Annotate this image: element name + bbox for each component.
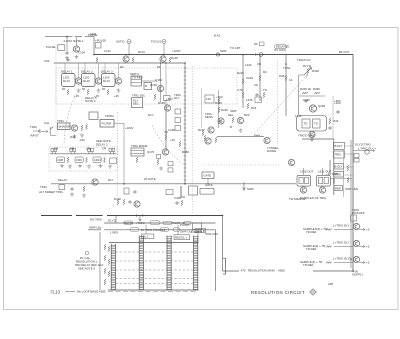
svg-text:DLAY: DLAY (103, 79, 110, 83)
svg-text:SWP: SWP (220, 49, 227, 53)
svg-text:SWP: SWP (230, 109, 237, 113)
ladder column 1 (111, 244, 115, 290)
wire stub box2 up (322, 168, 324, 175)
ground c101 (65, 56, 69, 60)
wire vertical x286 (285, 55, 287, 117)
wire dly trig out (354, 150, 373, 152)
resistor R160 (154, 94, 156, 100)
resistor R206 (215, 137, 217, 143)
ground q237 (239, 129, 243, 133)
resistor under q175 (157, 159, 159, 165)
resistor right of box (329, 118, 331, 124)
box small x124 (124, 188, 129, 194)
box trig shaper (58, 123, 71, 130)
ladder column 2 (139, 236, 143, 291)
box small x192 (193, 223, 202, 230)
svg-text:R180: R180 (182, 150, 189, 154)
adjust FOCUS circle (162, 40, 166, 44)
wire y96 (299, 95, 325, 97)
ground row 1 (60, 164, 64, 168)
svg-text:+50V: +50V (166, 97, 173, 101)
label delayed on line (124, 221, 133, 224)
wire right bus corner vertical x353 (352, 55, 354, 272)
svg-text:DLY'D: DLY'D (303, 64, 311, 68)
wire second bus y63 (54, 62, 185, 64)
row1 terminal (359, 228, 365, 231)
transistor Q253 (115, 78, 121, 84)
value box V2 (175, 118, 181, 123)
svg-text:DL 1: DL 1 (143, 235, 149, 239)
connector trig input (33, 130, 40, 133)
selector stack A (131, 76, 142, 86)
left resistors group1 (104, 244, 106, 250)
junction circle on bus (259, 53, 263, 57)
ground row 2 (68, 165, 72, 169)
cluster 2 top (70, 148, 76, 154)
svg-text:NO TRIG: NO TRIG (90, 218, 103, 222)
resistor diode row a (67, 157, 69, 163)
resistor R205 (204, 135, 206, 141)
transistor Q205 (208, 127, 214, 133)
svg-text:L+TRIG DLY: L+TRIG DLY (333, 224, 349, 228)
svg-text:CAL: CAL (44, 121, 50, 125)
wire long horizontal y183.8 (51, 183, 296, 185)
wire input to switch (41, 130, 48, 132)
transistor Q160 (157, 85, 163, 91)
wire stem x67 (66, 37, 68, 51)
left resistors group5 (104, 268, 106, 274)
svg-text:DELAY 2: DELAY 2 (96, 142, 108, 146)
svg-text:DELAY: DELAY (58, 178, 67, 182)
transistor Q220 (218, 118, 224, 124)
wire stubs boxes to bus (345, 146, 354, 175)
node busC x160 (160, 62, 161, 63)
svg-text:+TRIG: +TRIG (136, 221, 145, 225)
label row mid boxes a (160, 228, 169, 231)
svg-text:TD: TD (263, 88, 267, 92)
vertical x333 upper (332, 96, 334, 139)
transistor Q237 (237, 117, 243, 123)
switch cal-norm (50, 127, 56, 136)
inner cell 1a (299, 177, 303, 183)
node busC x185 (184, 62, 186, 64)
resistor R180 (179, 141, 181, 147)
svg-text:TR REF: TR REF (303, 263, 314, 267)
wire box2 to bus (330, 178, 352, 180)
svg-text:C408: C408 (174, 196, 181, 200)
cluster x260 low (263, 92, 265, 98)
resistor chain right b (347, 177, 349, 183)
svg-text:+5: +5 (366, 245, 370, 249)
svg-text:SWP: SWP (247, 187, 254, 191)
row3 resistor (326, 262, 332, 264)
svg-text:R28: R28 (279, 74, 285, 78)
small boxes on bus below (354, 154, 359, 158)
svg-text:B A2: B A2 (214, 34, 220, 38)
resistor R243b (247, 103, 249, 109)
svg-text:R220: R220 (221, 108, 228, 112)
capacitor C63 on bus2 (66, 58, 69, 62)
left resistors group6 (108, 271, 110, 277)
box alt sweep (59, 185, 65, 190)
adjust ASTIG circle (127, 40, 131, 44)
svg-text:TD REG: TD REG (132, 76, 144, 80)
svg-text:CR10: CR10 (94, 158, 102, 162)
svg-text:SWP LEN: SWP LEN (345, 187, 358, 191)
capacitor C345 (304, 99, 307, 103)
dashed row 2 (115, 260, 193, 262)
node y184 x208 (207, 183, 208, 184)
ground trig (80, 134, 84, 138)
dashed row 5 (115, 283, 193, 285)
row1 wire (334, 229, 353, 231)
svg-text:DLY: DLY (108, 178, 113, 182)
svg-text:C60: C60 (44, 59, 50, 63)
wire stub box1 up (303, 168, 305, 175)
svg-text:ALT SWEEP TRIG: ALT SWEEP TRIG (39, 190, 64, 194)
terminal tick (372, 149, 375, 152)
svg-text:L235: L235 (246, 98, 253, 102)
resistor R131 (169, 57, 171, 63)
wire stubs bus to boxes (65, 63, 119, 78)
label row y223 box c (163, 221, 172, 224)
svg-text:C166: C166 (168, 128, 175, 132)
stacked box r4 (334, 172, 344, 178)
label box row 2 (75, 157, 83, 163)
circle symbol (85, 251, 89, 255)
svg-text:+15: +15 (114, 94, 119, 98)
svg-text:R160: R160 (150, 83, 157, 87)
selector box DLY SEL (132, 98, 143, 108)
dly trig out transistor (365, 150, 369, 154)
wire mid horizontal y136.3 (217, 135, 264, 137)
node y184 x124 (123, 183, 125, 185)
svg-text:PULSE: PULSE (46, 45, 56, 49)
transistor Q45 (71, 125, 77, 131)
bracket x181 (181, 186, 185, 197)
ground below box (310, 138, 314, 142)
arrow connector down (243, 182, 246, 190)
label box dl1 (141, 234, 154, 238)
dashed diagonal arrow (257, 74, 308, 131)
svg-text:SEL: SEL (133, 102, 139, 106)
svg-text:1 RES: 1 RES (110, 231, 118, 235)
arrow into bus (349, 257, 352, 260)
box small x166 (166, 190, 173, 195)
block left vertical (99, 232, 101, 290)
svg-text:DELAY 2: DELAY 2 (81, 70, 93, 74)
resistor chain x219 b (218, 107, 220, 113)
svg-text:GEN: GEN (90, 32, 96, 36)
small box B SWP (144, 83, 152, 90)
resistor R286 (285, 75, 287, 81)
label box row3 a (130, 228, 139, 231)
svg-text:DLAY: DLAY (63, 79, 70, 83)
block bottom edge (108, 289, 199, 291)
node line x67 (66, 36, 68, 38)
junction circle x218 bus (216, 53, 219, 56)
svg-text:C234: C234 (246, 76, 253, 80)
resistor chain x219 (218, 98, 220, 104)
svg-text:7L13: 7L13 (50, 290, 61, 295)
ground row 6 (108, 165, 112, 169)
wire vertical x201.5 (201, 88, 203, 128)
svg-text:SEE NOTE 4: SEE NOTE 4 (78, 267, 95, 271)
resistor R403 (123, 199, 125, 205)
svg-text:SENS: SENS (205, 115, 213, 119)
svg-text:4.7K: 4.7K (237, 88, 243, 92)
svg-text:50: 50 (62, 87, 66, 91)
dashed row 3 (115, 269, 193, 271)
svg-text:EF: EF (120, 65, 124, 69)
capacitor C166 (164, 130, 167, 134)
wire vertical x243 (242, 55, 244, 109)
label box row 1 (57, 157, 65, 163)
svg-text:R216: R216 (215, 101, 222, 105)
label row y223 box d (184, 221, 191, 224)
capacitor C101 (65, 51, 68, 55)
box delay filter (100, 120, 114, 128)
capacitor C260 (255, 93, 258, 97)
node x286 top (285, 63, 287, 65)
dashed row 4 (115, 277, 193, 279)
wire stub x166 top (165, 63, 167, 96)
capacitor right of box (328, 126, 331, 130)
svg-text:TR REF: TR REF (306, 247, 317, 251)
ground g253 (117, 89, 121, 93)
svg-text:SWP: SWP (335, 186, 342, 190)
svg-text:R24: R24 (251, 106, 257, 110)
inner cell 2b (324, 177, 328, 183)
svg-text:PICKOFF: PICKOFF (352, 211, 365, 215)
wire label line y229.8 (88, 229, 216, 231)
svg-text:L344: L344 (295, 114, 302, 118)
transistor Q131 (160, 56, 166, 62)
svg-text:+15: +15 (74, 94, 79, 98)
wire vertical x333 (333, 139, 335, 195)
left resistors group3 (104, 255, 106, 261)
svg-text:+5: +5 (366, 228, 370, 232)
resistor diode row c (104, 157, 106, 163)
resistor chain right a (347, 165, 349, 171)
left resistors group2 (108, 246, 110, 252)
svg-text:TD: TD (304, 122, 308, 126)
wire vertical x260 (259, 55, 261, 102)
delay-line ticks x185 (184, 68, 187, 180)
svg-text:C345: C345 (303, 98, 310, 102)
resistor R234 (242, 78, 244, 84)
svg-text:50: 50 (102, 87, 106, 91)
svg-text:C121: C121 (104, 49, 111, 53)
svg-text:R34: R34 (333, 119, 339, 123)
svg-text:+100V: +100V (172, 49, 181, 53)
svg-text:ASTIG: ASTIG (116, 40, 125, 44)
svg-text:TR SAMPLE: TR SAMPLE (289, 197, 305, 201)
rounded box trig pickoff (297, 116, 327, 132)
svg-text:DLY'D TRIG: DLY'D TRIG (355, 143, 371, 147)
node y271 x353 (352, 270, 354, 272)
capacitor C333 (336, 110, 339, 114)
svg-text:50Ω LINK: 50Ω LINK (206, 232, 219, 236)
wire drop x116 (115, 216, 117, 223)
svg-text:FOCUS: FOCUS (151, 40, 161, 44)
svg-text:NOTE 3: NOTE 3 (85, 99, 96, 103)
ground row 3 (78, 164, 82, 168)
row2 terminal (359, 245, 365, 248)
ground row 5 (99, 164, 103, 168)
stacked value box a x168 (168, 162, 173, 166)
svg-text:+50V: +50V (334, 99, 341, 103)
svg-text:TRIG: TRIG (40, 185, 48, 189)
transistor Q345 (309, 105, 316, 112)
svg-text:SWP A: SWP A (130, 72, 139, 76)
wire stub row to block b (177, 225, 179, 235)
transistor Q101 (73, 46, 79, 52)
svg-text:A95: A95 (328, 282, 334, 286)
resistor R260 (259, 75, 261, 81)
value box V3 (175, 126, 181, 131)
cluster 1 top (51, 148, 57, 154)
inner cell 1b (305, 177, 309, 183)
svg-text:LVL: LVL (218, 119, 223, 123)
transistor below box (309, 131, 315, 137)
wire right bus pair x351 (350, 140, 352, 268)
svg-text:R131: R131 (138, 50, 145, 54)
svg-text:L234: L234 (245, 63, 252, 67)
svg-text:Q345: Q345 (318, 104, 325, 108)
wire A955 horizontal y271 right (313, 270, 353, 272)
wire vertical x298.7 (299, 75, 305, 115)
svg-text:DELAY 3: DELAY 3 (101, 70, 113, 74)
wire vertical x94 drop (93, 37, 95, 55)
svg-text:B1 (A10): B1 (A10) (275, 48, 286, 52)
transistor Q251 (75, 78, 81, 84)
svg-text:L20: L20 (206, 97, 211, 101)
svg-text:RESOL +: RESOL + (175, 236, 187, 240)
transistor Q252 (95, 78, 101, 84)
node busC x166 (165, 62, 166, 63)
svg-text:+PULSE: +PULSE (95, 39, 106, 43)
capacitor C45 (73, 135, 76, 139)
svg-text:CR: CR (102, 147, 106, 151)
svg-text:R346: R346 (313, 87, 320, 91)
svg-text:1 RES B: 1 RES B (191, 230, 202, 234)
dotted divider x56 (55, 44, 57, 136)
dashed arc feedback left (64, 89, 81, 143)
svg-text:B2 OUT: B2 OUT (339, 50, 350, 54)
box under line1 (189, 186, 198, 195)
svg-text:CR: CR (54, 147, 58, 151)
delay unit L253 (102, 74, 116, 87)
box L205 (205, 95, 214, 103)
svg-text:HF: HF (254, 42, 258, 46)
wire stem q101 (76, 37, 78, 46)
resistor R252 (87, 89, 89, 95)
resistor between boxes (333, 179, 335, 185)
svg-text:SEL: SEL (228, 113, 234, 117)
svg-text:TUNL: TUNL (283, 66, 291, 70)
wire main top bus y54.5 (94, 54, 353, 56)
wire horizontal y215.5 (41, 215, 223, 217)
wire top-left horizontal y36 (45, 36, 94, 38)
svg-text:475 RESOLUTION MAIN A955: 475 RESOLUTION MAIN A955 (241, 269, 285, 273)
svg-text:R345 2K: R345 2K (300, 87, 311, 91)
box row right (110, 158, 117, 164)
wire vertical x160.5 (160, 63, 162, 102)
dash before label (65, 290, 75, 292)
svg-text:DELAY 1: DELAY 1 (61, 70, 73, 74)
row1 resistor (326, 229, 332, 231)
row3 wire (334, 262, 353, 264)
row1 transistor (353, 223, 359, 229)
svg-text:L+TRIG DLY: L+TRIG DLY (333, 241, 349, 245)
svg-text:TRIG'D A2: TRIG'D A2 (297, 58, 311, 62)
delay unit L252 (82, 74, 96, 87)
svg-text:SUPPLY: SUPPLY (352, 273, 363, 277)
coil L230 (254, 135, 260, 137)
box right of x94 (96, 43, 102, 49)
svg-text:Mx LOOP BASE A955: Mx LOOP BASE A955 (77, 290, 106, 294)
wire vertical x218.3 (217, 90, 219, 128)
arrowheads on y215 line (136, 214, 144, 216)
box swp gate (202, 172, 214, 179)
row3 transistor (353, 256, 359, 262)
node y184 x185 (184, 183, 186, 185)
resistor diode row b (86, 157, 88, 163)
stacked box r2 (334, 151, 345, 158)
wire bottom dashed line y291.3 (108, 291, 196, 293)
svg-text:CR9: CR9 (76, 158, 82, 162)
left resistors group7 (104, 279, 106, 285)
ground g252 (97, 89, 101, 93)
stacked box r1 (334, 142, 345, 149)
svg-text:GATE: GATE (205, 183, 213, 187)
box small x255 (255, 97, 262, 103)
stacked box r5 (334, 186, 343, 191)
transistor Q below 2 (319, 187, 325, 193)
svg-text:DIODE: DIODE (267, 149, 276, 153)
svg-text:DLY: DLY (148, 113, 153, 117)
ground g251 (77, 89, 81, 93)
resistor R402 (117, 199, 119, 205)
diamond symbol (310, 289, 317, 296)
svg-text:DLY'D: DLY'D (125, 221, 133, 225)
svg-text:CR8: CR8 (57, 158, 63, 162)
resistor R345 (302, 92, 308, 94)
right bracket (223, 258, 225, 274)
svg-text:R133: R133 (171, 56, 178, 60)
box trig pickoff bus top (351, 215, 357, 221)
svg-text:INPUT: INPUT (30, 134, 39, 138)
dotted divider x192.7 (192, 66, 194, 213)
capacitor C410 (133, 190, 136, 194)
label box mid line (150, 221, 160, 225)
resistor R45 (81, 125, 83, 131)
resistor R251 (67, 89, 69, 95)
svg-text:TR REF: TR REF (306, 230, 317, 234)
ladder column 3 (167, 236, 171, 291)
svg-text:R45: R45 (70, 135, 76, 139)
wire vertical x222.5 (222, 216, 224, 272)
svg-text:PICKO: PICKO (180, 223, 190, 227)
block top edge (109, 242, 199, 244)
resistor R91 (83, 186, 85, 192)
svg-text:SWP LBL: SWP LBL (89, 226, 102, 230)
capacitor C408 (175, 201, 178, 205)
node y215 x222 (222, 215, 224, 217)
dotted divider x277.5 (277, 60, 279, 145)
svg-text:TRIG: TRIG (30, 125, 38, 129)
